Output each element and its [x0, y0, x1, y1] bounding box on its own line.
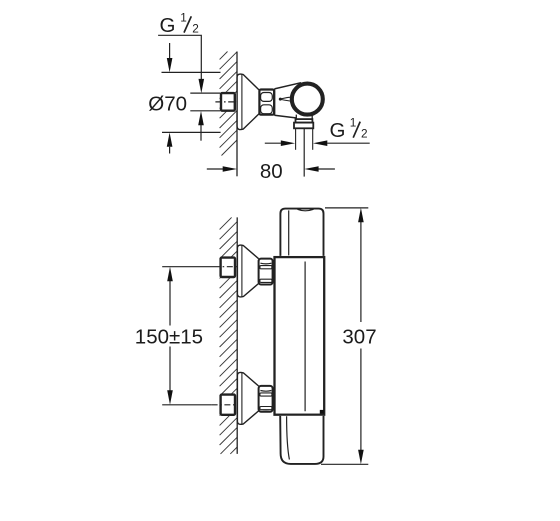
upper concealed fitting nipple sliver (front view) [234, 258, 237, 277]
bottom handle knob (front view) [280, 416, 323, 464]
dimension 307 line upper segment with up arrow [360, 222, 362, 323]
outlet pipe edges (side view) [295, 128, 297, 149]
escutcheon base edge (side view) [241, 74, 243, 129]
lower union nut (front view) [259, 386, 273, 412]
outlet neck lines (side view) [295, 115, 297, 120]
label O70 [148, 92, 187, 115]
dimension O70 upper arrow (down) with stem [169, 43, 171, 58]
upper nut waist lines [260, 266, 271, 283]
lower fitting centerline solid part [162, 404, 211, 406]
lower concealed fitting nipple sliver (front view) [234, 395, 237, 414]
svg-text:150±15: 150±15 [135, 325, 203, 348]
dimension G 1/2 (top label) leader [158, 35, 201, 79]
escutcheon cone (side view) [237, 74, 259, 130]
svg-text:Ø70: Ø70 [148, 92, 187, 115]
upper concealed fitting square (front view) [221, 258, 235, 277]
upper fitting centerline dash-dot part [214, 266, 237, 268]
dimension G 1/2 up arrow with stem [200, 125, 202, 141]
lower concealed fitting square (front view) [221, 395, 235, 415]
dimension G 1/2 down arrow [199, 79, 205, 93]
dimension 80 left arrow (to wall face) [207, 168, 223, 170]
lower fitting centerline dash-dot part [212, 404, 237, 406]
upper escutcheon base edge (front view) [241, 245, 243, 296]
bottom handle edge line [287, 416, 290, 459]
dimension 307 bottom extension line [321, 463, 368, 465]
union nut facet (upper, side view) [261, 93, 273, 102]
concealed fitting square (side view) [221, 93, 235, 111]
mixer body contour top (side view) [274, 83, 301, 89]
dimension G 1/2 (outlet) right arrow and leader [327, 142, 370, 144]
wall face line (front view) [236, 217, 238, 454]
upper escutcheon cone (front view) [237, 245, 258, 297]
label 150+-15 [135, 325, 203, 348]
svg-text:80: 80 [260, 160, 283, 183]
lower escutcheon cone (front view) [237, 372, 258, 424]
svg-text:307: 307 [342, 325, 376, 348]
dimension 307 top extension line [325, 207, 368, 209]
mixer body rectangle (front view) [275, 257, 325, 415]
label G 1/2 (top) [160, 11, 199, 37]
top handle knob (front view) [280, 209, 323, 256]
outlet pipe centerline / extension (side view) [303, 129, 305, 177]
mixer body left face (side view) [274, 89, 276, 115]
fitting centerline (dash-dot, side view) [215, 101, 237, 103]
label G 1/2 (outlet) [330, 115, 368, 141]
dimension 150+-15 line lower segment with down arrow [169, 347, 171, 392]
top handle grip arc [298, 209, 314, 211]
extension line escutcheon bottom (side view) [162, 131, 221, 133]
wall hatching (front view) [220, 217, 238, 454]
outlet nut upper band (side view) [296, 119, 313, 123]
outlet nut lower band (side view) [294, 123, 313, 129]
dimension 150+-15 line upper segment with up arrow [169, 281, 171, 326]
wall face line (side view) [236, 52, 238, 177]
union nut (side view) [259, 90, 274, 115]
temperature pointer needle (side view) [281, 97, 294, 102]
svg-text:G: G [160, 14, 176, 37]
dimension 307 line lower segment with down arrow [360, 349, 362, 451]
outlet stub mark (bottom right of body) [320, 410, 324, 414]
mixer body contour bottom (side view) [274, 115, 296, 118]
union nut facet (lower, side view) [261, 105, 273, 114]
extension line escutcheon top (side view) [162, 71, 221, 73]
svg-text:2: 2 [361, 126, 368, 140]
lower nut waist lines [260, 393, 271, 410]
concealed fitting nipple sliver (side view) [234, 93, 237, 110]
svg-text:1: 1 [180, 11, 187, 25]
svg-text:G: G [330, 119, 346, 142]
dimension 80 right arrow (to outlet centerline) [318, 168, 335, 170]
lower escutcheon base edge (front view) [241, 373, 243, 425]
dimension O70 lower arrow (up) with stem [169, 147, 171, 154]
needle tip ball (side view) [279, 98, 282, 101]
extension line square bottom (side view) [190, 110, 220, 112]
label 307 [342, 325, 376, 348]
svg-text:2: 2 [192, 21, 199, 35]
extension line square top (side view) [190, 92, 220, 94]
dimension G 1/2 (outlet) left arrow [265, 142, 281, 144]
mixer body edge highlight line [304, 262, 306, 412]
top handle edge line [288, 210, 290, 255]
upper union nut (front view) [259, 259, 273, 285]
svg-text:1: 1 [350, 115, 357, 129]
upper fitting centerline solid part [162, 266, 214, 268]
knob circle (side view) [292, 84, 323, 115]
wall hatching (side view) [220, 52, 237, 156]
label 80 [260, 160, 283, 183]
